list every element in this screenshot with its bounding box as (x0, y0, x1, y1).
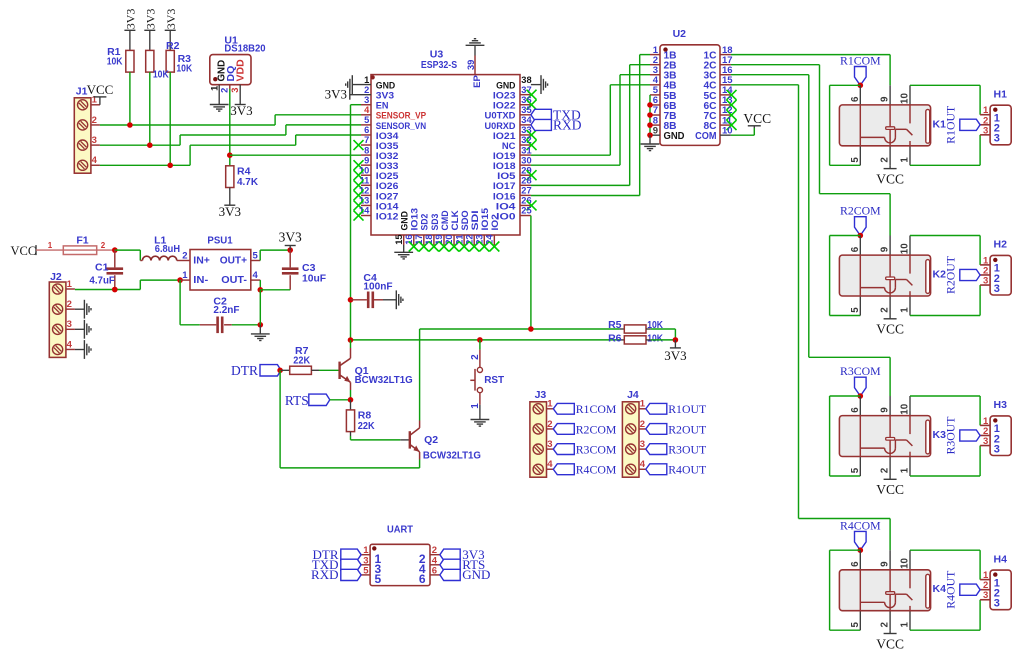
svg-text:4: 4 (67, 339, 73, 350)
svg-text:3: 3 (67, 319, 72, 330)
svg-text:1: 1 (547, 399, 553, 410)
svg-text:VCC: VCC (11, 244, 37, 258)
svg-text:9: 9 (653, 125, 658, 136)
svg-text:2: 2 (220, 88, 230, 93)
svg-text:J4: J4 (627, 389, 639, 401)
svg-text:IO2: IO2 (489, 214, 500, 230)
svg-text:8: 8 (364, 145, 369, 155)
svg-text:7: 7 (364, 135, 369, 145)
svg-text:6: 6 (850, 96, 861, 102)
svg-text:2: 2 (640, 419, 645, 430)
svg-text:R1OUT: R1OUT (943, 105, 957, 144)
svg-text:R2OUT: R2OUT (943, 255, 957, 294)
svg-text:2: 2 (101, 241, 106, 250)
svg-text:R5: R5 (608, 319, 622, 331)
svg-text:5: 5 (364, 115, 369, 125)
svg-text:1: 1 (182, 270, 188, 281)
svg-text:VCC: VCC (876, 172, 904, 187)
svg-text:22: 22 (464, 234, 474, 244)
svg-text:10: 10 (900, 243, 911, 254)
svg-text:1: 1 (470, 403, 481, 409)
svg-text:10K: 10K (176, 63, 192, 75)
svg-text:3V3: 3V3 (143, 9, 157, 30)
svg-text:1: 1 (900, 622, 911, 628)
svg-text:UART: UART (387, 524, 414, 536)
svg-text:H3: H3 (994, 399, 1008, 411)
svg-text:4: 4 (253, 270, 259, 281)
svg-text:H1: H1 (994, 89, 1008, 101)
svg-text:3: 3 (640, 439, 645, 450)
svg-text:22K: 22K (293, 354, 310, 366)
svg-text:RTS: RTS (285, 393, 309, 408)
svg-text:10: 10 (900, 403, 911, 414)
svg-text:VCC: VCC (87, 82, 114, 97)
svg-text:10K: 10K (153, 69, 169, 81)
svg-text:18: 18 (424, 234, 434, 244)
svg-text:25: 25 (521, 206, 531, 216)
svg-text:R1OUT: R1OUT (668, 402, 707, 416)
svg-text:10uF: 10uF (302, 272, 327, 284)
svg-text:38: 38 (521, 75, 531, 85)
svg-text:10: 10 (900, 93, 911, 104)
svg-text:J3: J3 (535, 389, 547, 401)
svg-text:23: 23 (474, 234, 484, 244)
svg-text:IN+: IN+ (193, 254, 210, 266)
svg-text:10K: 10K (107, 56, 123, 68)
svg-text:34: 34 (521, 115, 532, 125)
svg-text:27: 27 (521, 186, 531, 196)
svg-text:DTR: DTR (231, 363, 258, 378)
svg-text:2: 2 (67, 299, 72, 310)
svg-text:IN-: IN- (193, 274, 208, 286)
svg-text:4.7uF: 4.7uF (89, 275, 115, 287)
svg-text:2: 2 (364, 85, 369, 95)
svg-text:3V3: 3V3 (664, 348, 686, 363)
svg-text:5: 5 (253, 250, 259, 261)
svg-text:3: 3 (983, 436, 988, 447)
svg-text:6: 6 (364, 125, 369, 135)
svg-text:2: 2 (547, 419, 552, 430)
svg-text:20: 20 (444, 234, 454, 244)
svg-text:2: 2 (92, 115, 97, 126)
svg-text:J2: J2 (50, 271, 62, 283)
svg-text:4: 4 (92, 155, 98, 166)
svg-text:R2OUT: R2OUT (668, 422, 707, 436)
svg-text:1: 1 (900, 467, 911, 473)
svg-text:OUT+: OUT+ (220, 254, 247, 266)
svg-text:R1COM: R1COM (576, 402, 617, 416)
svg-text:3: 3 (994, 598, 1000, 610)
svg-text:3: 3 (994, 283, 1000, 295)
svg-text:11: 11 (359, 176, 369, 186)
svg-text:5: 5 (850, 467, 861, 473)
svg-text:5: 5 (850, 307, 861, 313)
svg-text:4: 4 (547, 459, 553, 470)
svg-text:9: 9 (880, 407, 891, 413)
svg-text:1: 1 (900, 307, 911, 313)
svg-text:R2COM: R2COM (840, 204, 881, 218)
svg-text:VCC: VCC (876, 636, 904, 651)
svg-text:VCC: VCC (876, 482, 904, 497)
svg-text:IO12: IO12 (376, 210, 399, 221)
svg-text:DS18B20: DS18B20 (224, 42, 265, 54)
svg-text:3: 3 (994, 133, 1000, 145)
svg-text:9: 9 (880, 246, 891, 252)
svg-text:RXD: RXD (553, 117, 582, 132)
svg-text:1: 1 (48, 241, 53, 250)
svg-text:2: 2 (470, 354, 481, 360)
svg-text:5: 5 (850, 622, 861, 628)
svg-text:BCW32LT1G: BCW32LT1G (355, 374, 413, 386)
svg-text:3: 3 (230, 88, 240, 93)
svg-text:6.8uH: 6.8uH (155, 243, 180, 255)
svg-text:100nF: 100nF (363, 280, 393, 292)
svg-text:PSU1: PSU1 (207, 235, 232, 247)
svg-text:3: 3 (92, 135, 97, 146)
svg-text:R4COM: R4COM (576, 463, 617, 477)
svg-text:4: 4 (640, 459, 646, 470)
svg-text:3V3: 3V3 (230, 103, 252, 118)
svg-text:3: 3 (983, 276, 988, 287)
svg-text:C1: C1 (95, 261, 109, 273)
svg-text:2: 2 (182, 250, 187, 261)
svg-text:F1: F1 (76, 234, 88, 246)
svg-text:1: 1 (900, 157, 911, 163)
svg-text:VCC: VCC (876, 322, 904, 337)
svg-text:39: 39 (466, 60, 476, 70)
svg-text:R2: R2 (166, 40, 180, 52)
svg-text:2: 2 (880, 307, 891, 313)
svg-text:VCC: VCC (743, 111, 771, 126)
svg-text:2.2nF: 2.2nF (213, 304, 240, 316)
svg-text:1: 1 (640, 399, 646, 410)
svg-text:9: 9 (880, 561, 891, 567)
svg-text:9: 9 (364, 155, 369, 165)
svg-text:R6: R6 (608, 333, 622, 345)
svg-text:28: 28 (521, 176, 531, 186)
svg-text:R3OUT: R3OUT (943, 416, 957, 455)
svg-text:2: 2 (880, 157, 891, 163)
svg-text:5: 5 (363, 565, 369, 576)
svg-text:2: 2 (880, 622, 891, 628)
svg-text:2: 2 (880, 467, 891, 473)
svg-text:Q2: Q2 (424, 434, 438, 446)
svg-text:22K: 22K (358, 420, 375, 432)
svg-text:U2: U2 (673, 28, 687, 40)
svg-text:1: 1 (210, 86, 220, 91)
svg-text:3: 3 (994, 443, 1000, 455)
svg-text:3: 3 (547, 439, 552, 450)
svg-text:3: 3 (364, 95, 369, 105)
svg-text:3: 3 (983, 590, 988, 601)
svg-text:16: 16 (404, 234, 414, 244)
svg-text:R1COM: R1COM (840, 54, 881, 68)
svg-text:5: 5 (850, 157, 861, 163)
svg-text:4.7K: 4.7K (237, 176, 258, 188)
svg-text:R2COM: R2COM (576, 422, 617, 436)
svg-text:21: 21 (454, 234, 464, 244)
svg-text:10: 10 (900, 557, 911, 568)
svg-text:6: 6 (850, 246, 861, 252)
svg-text:BCW32LT1G: BCW32LT1G (423, 450, 481, 462)
svg-text:GND: GND (462, 567, 490, 582)
svg-text:10K: 10K (647, 333, 663, 345)
svg-text:1: 1 (364, 75, 369, 85)
svg-text:17: 17 (414, 234, 424, 244)
svg-text:9: 9 (880, 96, 891, 102)
svg-text:30: 30 (521, 155, 531, 165)
svg-text:H2: H2 (994, 239, 1008, 251)
svg-text:6: 6 (850, 561, 861, 567)
svg-text:R3OUT: R3OUT (668, 442, 707, 456)
svg-text:3: 3 (983, 125, 988, 136)
svg-text:3V3: 3V3 (164, 9, 178, 30)
svg-text:3V3: 3V3 (279, 230, 302, 245)
svg-text:ESP32-S: ESP32-S (421, 59, 457, 71)
svg-text:R4OUT: R4OUT (943, 570, 957, 609)
svg-text:6: 6 (850, 407, 861, 413)
svg-text:3V3: 3V3 (325, 87, 347, 102)
svg-text:OUT-: OUT- (221, 274, 247, 286)
svg-text:15: 15 (394, 234, 404, 244)
svg-text:EP: EP (471, 75, 482, 88)
svg-text:R3COM: R3COM (840, 364, 881, 378)
svg-text:RXD: RXD (311, 567, 338, 582)
svg-text:RST: RST (484, 374, 504, 386)
svg-text:24: 24 (485, 234, 495, 245)
svg-text:3V3: 3V3 (124, 9, 138, 30)
svg-text:VDD: VDD (235, 59, 247, 82)
svg-text:31: 31 (521, 145, 531, 155)
svg-text:COM: COM (695, 131, 716, 142)
svg-text:1: 1 (67, 279, 73, 290)
svg-text:R4OUT: R4OUT (668, 463, 707, 477)
svg-text:R3COM: R3COM (576, 442, 617, 456)
svg-text:35: 35 (521, 105, 531, 115)
svg-text:6: 6 (419, 572, 426, 586)
svg-text:H4: H4 (994, 553, 1008, 565)
svg-text:6: 6 (432, 565, 437, 576)
svg-text:R4COM: R4COM (840, 518, 881, 532)
svg-text:GND: GND (664, 131, 685, 142)
svg-text:5: 5 (375, 572, 382, 586)
svg-text:4: 4 (364, 105, 370, 115)
svg-text:3V3: 3V3 (219, 204, 241, 219)
svg-text:19: 19 (434, 234, 444, 244)
